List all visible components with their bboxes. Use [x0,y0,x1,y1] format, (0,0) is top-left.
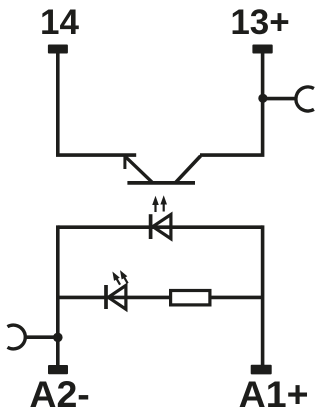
junction on A2 wire [53,333,63,343]
svg-text:14: 14 [40,3,79,42]
status LED light arrow 2 [117,268,130,285]
test socket at A2 (arc opening left) [7,325,25,349]
terminal 13+ [252,45,272,54]
LED D1 optocoupler emitter: triangle [153,215,171,239]
test socket at 13+ (arc opening right) [296,87,314,111]
optocoupler light arrow 2 [160,195,167,211]
LED D1 optocoupler emitter: cathode bar [149,214,153,239]
wire: terminal 14 down and right to transistor emitter [58,53,136,156]
optocoupler light arrow 1 [152,196,159,212]
phototransistor Q1 base bar [127,181,195,185]
wire: junction to test socket 13+ [263,97,297,101]
LED D2 status indicator: triangle [108,285,126,309]
terminal 14 [48,45,68,54]
resistor R1 [171,291,210,305]
svg-text:A2-: A2- [29,373,89,414]
phototransistor Q1 collector lead [175,156,200,183]
svg-text:13+: 13+ [230,3,289,42]
terminal A1 [251,365,272,375]
wire: junction to test socket A2 [26,335,58,339]
wire: right vertical A1 branch [261,225,265,365]
junction on 13+ wire [258,94,267,103]
LED D2 status indicator: cathode bar [104,285,108,309]
svg-text:A1+: A1+ [239,373,309,414]
wire: terminal 13+ down and left to transistor collector [200,53,263,156]
phototransistor Q1 emitter arrow [125,156,153,183]
terminal A2 [48,365,68,374]
wire: top branch of input circuit (A2 to A1) [58,225,263,229]
wire: left vertical A2 branch [56,225,60,365]
wire: middle branch with status LED and resistor [58,296,263,300]
status LED light arrow 1 [110,270,123,287]
